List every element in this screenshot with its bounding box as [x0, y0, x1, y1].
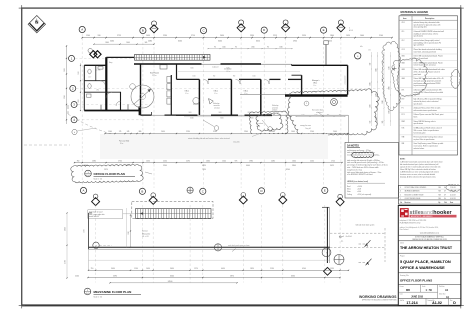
- svg-text:1600: 1600: [360, 35, 364, 37]
- datum circle-cross marks: [187, 187, 193, 193]
- left dimension vertical: [66, 46, 68, 124]
- svg-text:4010: 4010: [250, 118, 253, 120]
- svg-text:falls: falls: [360, 46, 363, 48]
- svg-text:2300: 2300: [251, 47, 254, 49]
- section cut A upper: [359, 243, 366, 245]
- svg-text:CD1: CD1: [402, 22, 405, 24]
- svg-text:A1-02: A1-02: [432, 301, 442, 305]
- svg-text:MATERIALS LEGEND: MATERIALS LEGEND: [401, 10, 428, 14]
- svg-text:Roof: Roof: [347, 186, 351, 188]
- svg-text:+10.50: +10.50: [357, 186, 362, 188]
- svg-text:Office: Office: [244, 91, 248, 93]
- toilet block left dim: [80, 63, 82, 111]
- svg-text:9370: 9370: [104, 169, 108, 171]
- job number cells: [425, 298, 427, 305]
- toilet fixtures: [88, 69, 91, 74]
- svg-text:4620: 4620: [202, 165, 206, 167]
- svg-text:Scale 1 : 50: Scale 1 : 50: [94, 297, 103, 299]
- svg-text:1800: 1800: [375, 68, 377, 71]
- svg-text:6330: 6330: [291, 276, 295, 278]
- svg-text:1240: 1240: [86, 35, 90, 37]
- svg-text:4540: 4540: [190, 118, 193, 120]
- svg-text:990: 990: [233, 76, 236, 78]
- svg-text:2480: 2480: [271, 160, 275, 162]
- svg-text:+3.20 (u/s exposed): +3.20 (u/s exposed): [357, 194, 372, 196]
- svg-text:1270: 1270: [194, 268, 198, 270]
- mezzanine deck edge: [89, 246, 331, 248]
- svg-text:WORKING DRAWINGS: WORKING DRAWINGS: [359, 295, 397, 299]
- managers office walls: [301, 75, 303, 95]
- svg-text:3400: 3400: [388, 86, 390, 89]
- svg-text:PC1: PC1: [402, 114, 405, 116]
- svg-text:+0.00: +0.00: [357, 191, 361, 193]
- mezz faint line: [89, 259, 331, 261]
- svg-text:1600: 1600: [292, 160, 296, 162]
- svg-text:By: By: [439, 202, 441, 204]
- svg-text:940: 940: [369, 63, 371, 66]
- svg-text:Scale 1 : 50: Scale 1 : 50: [94, 179, 103, 181]
- svg-text:2710: 2710: [191, 35, 195, 37]
- svg-text:2950: 2950: [293, 41, 297, 43]
- svg-text:Mezzanine: Mezzanine: [142, 233, 150, 235]
- svg-text:5000: 5000: [190, 68, 193, 70]
- svg-text:MB: MB: [406, 289, 410, 292]
- mezz left bubble: [93, 242, 99, 248]
- section diamonds mezzanine row: [92, 198, 100, 206]
- svg-text:760: 760: [213, 76, 216, 78]
- svg-text:4460: 4460: [226, 68, 229, 70]
- svg-text:Ceiling: Ceiling: [347, 194, 352, 196]
- title block frame: [398, 206, 461, 306]
- svg-text:760: 760: [77, 160, 80, 162]
- svg-text:Workshop: Workshop: [272, 105, 279, 107]
- svg-text:1060: 1060: [315, 114, 318, 116]
- svg-text:905: 905: [145, 42, 148, 44]
- right side vertical dims office: [355, 53, 361, 59]
- grid lines vertical dashed: [81, 34, 83, 189]
- svg-text:175: 175: [119, 131, 122, 133]
- do-not-scale box: [398, 235, 461, 241]
- svg-text:3300: 3300: [163, 165, 167, 167]
- column symbol: [214, 244, 221, 251]
- svg-text:1560: 1560: [279, 47, 282, 49]
- svg-text:4050: 4050: [221, 268, 225, 270]
- office partitions: [198, 79, 200, 115]
- svg-text:1050: 1050: [146, 268, 150, 270]
- svg-text:LF1: LF1: [402, 89, 405, 91]
- svg-text:New Zealand: New Zealand: [400, 229, 409, 231]
- svg-text:Job No: Job No: [400, 300, 405, 302]
- mezz left vertical dim: [66, 213, 68, 278]
- svg-text:Mezz: Mezz: [347, 189, 351, 191]
- svg-text:1980: 1980: [249, 160, 253, 162]
- svg-text:clear opening dims: clear opening dims: [414, 27, 428, 29]
- svg-text:3490: 3490: [111, 268, 115, 270]
- corridor wall: [177, 78, 200, 80]
- dimension line top: [82, 37, 392, 39]
- svg-text:1200: 1200: [388, 66, 390, 69]
- section cut A lower: [359, 261, 366, 263]
- svg-text:90: 90: [214, 47, 216, 49]
- svg-text:860: 860: [339, 114, 341, 116]
- svg-text:2 deg fall: 2 deg fall: [305, 128, 311, 130]
- svg-text:1190: 1190: [134, 268, 138, 270]
- svg-text:3010: 3010: [188, 112, 191, 114]
- svg-text:3010: 3010: [220, 118, 223, 120]
- svg-text:3050: 3050: [64, 227, 66, 231]
- tall revision cloud right: [382, 41, 400, 110]
- diag leaders office: [203, 120, 214, 127]
- svg-text:2520: 2520: [302, 35, 306, 37]
- svg-text:b: b: [74, 132, 75, 134]
- svg-text:Staff Room: Staff Room: [150, 72, 159, 75]
- svg-text:2460: 2460: [105, 42, 109, 44]
- svg-text:2650: 2650: [220, 35, 224, 37]
- svg-text:5030: 5030: [64, 68, 66, 72]
- svg-text:E: E: [324, 189, 326, 193]
- svg-text:Description: Description: [425, 17, 434, 20]
- svg-text:1830: 1830: [78, 99, 80, 102]
- svg-text:5390: 5390: [113, 276, 117, 278]
- svg-text:THE ARROW HEATON TRUST: THE ARROW HEATON TRUST: [400, 246, 453, 250]
- svg-text:B: B: [141, 189, 143, 193]
- svg-text:1540: 1540: [222, 160, 226, 162]
- logo red square: [400, 208, 409, 217]
- svg-text:JH: JH: [444, 191, 446, 193]
- svg-text:FFL +6.18: FFL +6.18: [142, 236, 149, 238]
- svg-text:1540: 1540: [192, 76, 195, 78]
- svg-text:2480: 2480: [271, 131, 275, 133]
- mezzanine stair dashed outline: [132, 201, 213, 218]
- materials legend table: [399, 16, 458, 155]
- svg-text:CL1: CL1: [402, 31, 405, 33]
- north arrow: [28, 16, 45, 33]
- svg-text:1820: 1820: [250, 268, 254, 270]
- svg-text:4400: 4400: [246, 165, 250, 167]
- svg-text:OFFICE & WAREHOUSE: OFFICE & WAREHOUSE: [400, 265, 445, 270]
- svg-text:CO1: CO1: [402, 49, 405, 51]
- svg-text:Revision: Revision: [405, 202, 411, 204]
- section markers top row: [152, 21, 157, 26]
- svg-text:1400: 1400: [222, 47, 225, 49]
- svg-text:1800: 1800: [330, 35, 334, 37]
- svg-text:2080: 2080: [148, 41, 152, 43]
- svg-text:GB2: GB2: [402, 62, 405, 64]
- svg-text:2700: 2700: [118, 160, 122, 162]
- svg-text:MB: MB: [439, 198, 441, 200]
- svg-text:1050: 1050: [146, 35, 150, 37]
- cloud near forecourt: [256, 113, 283, 131]
- svg-text:Chk: Chk: [444, 202, 447, 204]
- staff room partitions: [140, 64, 142, 115]
- svg-text:CLIENT REVIEW ISSUE: CLIENT REVIEW ISSUE: [405, 198, 421, 200]
- svg-text:1050: 1050: [146, 160, 150, 162]
- svg-text:2130: 2130: [270, 268, 274, 270]
- svg-text:WC: WC: [97, 90, 99, 92]
- svg-text:2200: 2200: [310, 131, 314, 133]
- mezz bottom bubbles: [322, 248, 331, 257]
- svg-text:5 QUAY PLACE, HAMILTON: 5 QUAY PLACE, HAMILTON: [400, 259, 451, 264]
- grid bubbles left column: [69, 55, 75, 61]
- svg-text:D: D: [260, 189, 262, 193]
- svg-text:BUILDING CONSENT ISSUE: BUILDING CONSENT ISSUE: [405, 194, 424, 196]
- door leaf marks: [100, 105, 102, 111]
- svg-text:Item: Item: [403, 17, 407, 20]
- grid bubbles mezzanine row: [80, 187, 86, 193]
- svg-text:1530: 1530: [330, 268, 334, 270]
- svg-text:GB3: GB3: [402, 69, 405, 71]
- svg-text:Cupboard: Cupboard: [212, 66, 219, 68]
- svg-text:3200: 3200: [213, 131, 217, 133]
- svg-text:MEZZANINE FLOOR PLAN: MEZZANINE FLOOR PLAN: [94, 290, 132, 294]
- svg-text:Office: Office: [185, 91, 189, 93]
- svg-text:4200: 4200: [302, 268, 306, 270]
- svg-text:710: 710: [91, 268, 94, 270]
- svg-text:JH: JH: [444, 198, 446, 200]
- svg-text:245: 245: [127, 131, 130, 133]
- forecourt slab tint: [100, 134, 328, 159]
- svg-text:3280: 3280: [64, 260, 66, 264]
- svg-text:2600: 2600: [388, 110, 390, 113]
- svg-text:2mm Vinyl flooring coved 150mm: 2mm Vinyl flooring coved 150mm up walls: [414, 143, 444, 145]
- svg-text:2980: 2980: [128, 231, 130, 234]
- office top wall: [134, 63, 202, 65]
- svg-text:900: 900: [382, 121, 384, 124]
- svg-text:JH: JH: [444, 194, 446, 196]
- svg-text:1540: 1540: [252, 76, 255, 78]
- dim line under office plan: [105, 133, 349, 135]
- svg-text:No: No: [400, 202, 402, 204]
- svg-text:OFFICE FLOOR PLANS: OFFICE FLOOR PLANS: [400, 278, 432, 282]
- triangle symbols: [209, 99, 214, 104]
- svg-text:1860: 1860: [369, 104, 371, 107]
- office stair (hatched): [135, 55, 211, 61]
- svg-text:P1: P1: [402, 108, 404, 110]
- svg-text:1640: 1640: [126, 42, 130, 44]
- svg-text:1660: 1660: [206, 160, 210, 162]
- office bottom wall: [176, 114, 348, 116]
- svg-text:2200: 2200: [75, 276, 79, 278]
- svg-text:5460: 5460: [110, 41, 114, 43]
- svg-text:17-214: 17-214: [406, 301, 417, 305]
- staff room table: [131, 85, 154, 108]
- mezzanine floor plan title: [84, 288, 91, 295]
- mezzanine right structure: [326, 207, 328, 263]
- svg-text:24100: 24100: [168, 281, 173, 283]
- svg-text:Scale: Scale: [422, 286, 426, 288]
- svg-text:90: 90: [235, 47, 237, 49]
- svg-text:8200: 8200: [286, 169, 290, 171]
- grid lines horizontal dashed: [75, 57, 178, 59]
- svg-text:3690: 3690: [170, 268, 174, 270]
- svg-text:Manager's: Manager's: [312, 80, 320, 82]
- svg-text:Service: Service: [142, 230, 148, 233]
- stair callout note: [88, 210, 123, 219]
- svg-text:2: 2: [203, 100, 204, 102]
- svg-text:7920: 7920: [202, 169, 206, 171]
- svg-text:2250: 2250: [163, 160, 167, 162]
- staff room door jamb: [176, 64, 178, 79]
- svg-text:A: A: [81, 28, 83, 32]
- cloud on revision date: [446, 184, 461, 191]
- svg-text:Office: Office: [214, 91, 218, 93]
- svg-text:5870: 5870: [230, 276, 234, 278]
- mezzanine stair hatched: [136, 209, 212, 219]
- svg-text:2300: 2300: [286, 118, 289, 120]
- svg-text:RW1: RW1: [402, 121, 406, 123]
- revision cloud office right: [288, 89, 380, 135]
- svg-text:2290: 2290: [186, 131, 190, 133]
- svg-text:MB: MB: [439, 191, 441, 193]
- mezz vertical dim: [130, 215, 132, 247]
- svg-text:B: B: [142, 29, 144, 33]
- svg-text:2650: 2650: [161, 131, 165, 133]
- svg-text:01.02.18: 01.02.18: [450, 198, 456, 200]
- svg-text:620: 620: [369, 121, 371, 124]
- svg-text:2200: 2200: [84, 229, 86, 233]
- svg-text:2: 2: [349, 28, 350, 30]
- svg-text:1: 1: [306, 103, 307, 105]
- svg-text:17.05.18: 17.05.18: [450, 187, 456, 189]
- svg-text:LF2: LF2: [402, 99, 405, 101]
- grid lines vertical dashed mezz: [95, 205, 97, 283]
- svg-text:2725: 2725: [117, 35, 121, 37]
- svg-text:1 : 50: 1 : 50: [426, 289, 433, 292]
- svg-text:A: A: [83, 189, 85, 193]
- lower dimension string: [75, 162, 343, 164]
- svg-text:3010: 3010: [218, 112, 221, 114]
- vent shaft: [325, 45, 327, 66]
- svg-text:2380: 2380: [92, 160, 96, 162]
- svg-text:JUNE 2018: JUNE 2018: [411, 296, 424, 298]
- svg-text:E: E: [323, 28, 325, 32]
- svg-text:Workshop: Workshop: [213, 103, 220, 105]
- office floor plan title + cloud: [71, 164, 143, 182]
- svg-text:6200: 6200: [178, 41, 182, 43]
- svg-text:C: C: [202, 29, 204, 33]
- site boundary dashed: [24, 144, 70, 146]
- svg-text:CL2: CL2: [402, 40, 405, 42]
- svg-text:JH: JH: [444, 187, 446, 189]
- svg-text:1600: 1600: [291, 131, 295, 133]
- svg-text:2940: 2940: [244, 131, 248, 133]
- svg-text:ST1: ST1: [402, 128, 405, 130]
- svg-text:Office: Office: [313, 82, 317, 84]
- svg-text:980: 980: [327, 114, 329, 116]
- svg-text:2200: 2200: [310, 160, 314, 162]
- svg-text:2390: 2390: [250, 35, 254, 37]
- svg-text:1250: 1250: [302, 114, 305, 116]
- grid bubbles top row: [79, 26, 85, 32]
- svg-text:2100: 2100: [379, 35, 383, 37]
- svg-text:D: D: [453, 301, 456, 305]
- mezz dim line 2: [88, 277, 340, 279]
- door swing arcs corridor: [204, 79, 209, 84]
- svg-text:2230: 2230: [163, 35, 167, 37]
- svg-text:2 deg falls: 2 deg falls: [233, 141, 240, 143]
- svg-text:C: C: [202, 189, 204, 193]
- office plan: toilet block walls: [83, 65, 85, 110]
- svg-text:finish: finish: [414, 117, 418, 119]
- svg-text:OFFICE FLOOR PLAN: OFFICE FLOOR PLAN: [94, 172, 125, 176]
- svg-text:975: 975: [235, 160, 238, 162]
- svg-text:MB: MB: [439, 194, 441, 196]
- svg-text:100 dp: 100 dp: [256, 126, 260, 128]
- svg-text:4010: 4010: [328, 41, 332, 43]
- svg-text:2215: 2215: [273, 35, 277, 37]
- mezz dim line 1: [89, 269, 349, 271]
- svg-text:3400: 3400: [218, 41, 222, 43]
- svg-text:mesh deck panels span as shown: mesh deck panels span as shown: [228, 245, 250, 247]
- svg-text:90: 90: [267, 47, 269, 49]
- svg-text:1560: 1560: [108, 131, 112, 133]
- floor waste symbol: [331, 99, 338, 106]
- svg-text:20.03.18: 20.03.18: [450, 194, 456, 196]
- svg-text:3240: 3240: [64, 95, 66, 99]
- svg-text:1420: 1420: [346, 35, 350, 37]
- svg-text:6010: 6010: [256, 41, 260, 43]
- svg-text:D: D: [263, 28, 265, 32]
- svg-text:GB4: GB4: [402, 78, 405, 80]
- svg-text:3A NOTES: 3A NOTES: [347, 144, 359, 147]
- scale cells: [420, 285, 422, 293]
- notes box (3A notes): [345, 143, 399, 199]
- svg-text:Floor: Floor: [347, 191, 351, 193]
- svg-text:DIMENSIONS ON SITE BEFORE COMM: DIMENSIONS ON SITE BEFORE COMMENCING WOR…: [412, 239, 447, 241]
- svg-text:1980: 1980: [382, 100, 384, 103]
- svg-text:2290: 2290: [186, 160, 190, 162]
- svg-text:6040: 6040: [170, 276, 174, 278]
- revision table: [398, 186, 461, 205]
- svg-text:880: 880: [139, 131, 142, 133]
- svg-text:930: 930: [98, 35, 101, 37]
- svg-text:3425: 3425: [330, 165, 334, 167]
- svg-text:1530: 1530: [78, 71, 80, 74]
- svg-text:1:60: 1:60: [368, 50, 371, 52]
- svg-text:GB1: GB1: [402, 56, 405, 58]
- svg-text:1725: 1725: [331, 160, 335, 162]
- svg-text:2400: 2400: [369, 82, 371, 85]
- svg-text:MB: MB: [439, 187, 441, 189]
- svg-text:3800: 3800: [292, 165, 296, 167]
- section markers left: [90, 51, 97, 58]
- legend revision cloud: [391, 58, 427, 96]
- svg-text:+6.18: +6.18: [357, 189, 361, 191]
- svg-text:NOTE:: NOTE:: [400, 158, 406, 160]
- svg-text:2400: 2400: [333, 131, 337, 133]
